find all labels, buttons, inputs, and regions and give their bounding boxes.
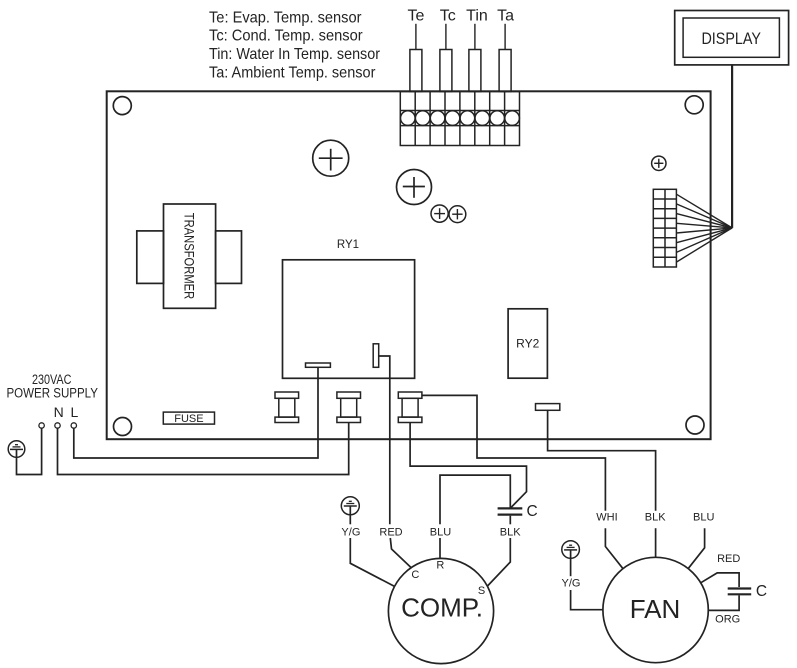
svg-text:RY2: RY2 — [516, 336, 539, 350]
wire N to relay terminal 2 — [58, 423, 349, 475]
svg-text:R: R — [436, 560, 444, 572]
svg-text:RED: RED — [379, 526, 402, 538]
wire RED to comp C — [390, 538, 411, 568]
terminal strip block — [400, 92, 519, 146]
RY2 output terminal bar — [536, 404, 560, 411]
control board outline — [107, 91, 711, 439]
ground symbol power supply — [8, 441, 25, 458]
svg-text:S: S — [478, 585, 485, 597]
svg-text:C: C — [411, 569, 419, 581]
mounting hole bottom-left — [114, 418, 132, 436]
wire BLU to fan — [688, 528, 705, 569]
svg-text:Y/G: Y/G — [341, 526, 360, 538]
relay terminal 2 — [337, 392, 361, 423]
wire relay terminal 3 to comp capacitor — [410, 423, 526, 508]
svg-text:COMP.: COMP. — [401, 593, 483, 623]
svg-text:BLU: BLU — [430, 526, 451, 538]
wire RY2 bar to FAN BLK — [548, 410, 656, 511]
screw hole large middle — [397, 170, 432, 205]
svg-text:POWER SUPPLY: POWER SUPPLY — [6, 385, 98, 400]
sensor Tin lead wire — [474, 24, 476, 50]
relay RY1 coil bar — [306, 363, 331, 367]
sensor Tin body — [469, 50, 481, 92]
terminal L — [71, 423, 76, 428]
svg-text:BLK: BLK — [500, 526, 521, 538]
wire comp ground upper — [349, 506, 351, 524]
wire capacitor to fan ORG — [708, 595, 739, 610]
sensor Ta body — [499, 50, 511, 92]
svg-text:C: C — [756, 583, 767, 600]
ground symbol comp — [341, 497, 359, 515]
earth terminal — [39, 423, 44, 428]
wire ground to earth terminal — [17, 428, 42, 474]
wire BLU comp branch — [440, 475, 510, 524]
svg-text:Y/G: Y/G — [562, 578, 581, 590]
capacitor C comp bottom plate — [498, 513, 523, 515]
screw hole small pair right — [449, 206, 466, 223]
capacitor C fan bottom plate — [728, 593, 752, 595]
sensor Ta lead wire — [504, 24, 506, 50]
ground symbol fan — [562, 541, 580, 559]
DISPLAY box — [675, 11, 789, 65]
relay RY1 contact — [373, 344, 379, 368]
wire WHI to fan — [605, 528, 623, 569]
wire BLK to fan — [655, 528, 657, 557]
svg-text:C: C — [527, 503, 538, 520]
svg-text:Tin: Tin — [466, 7, 488, 24]
svg-text:FAN: FAN — [630, 594, 681, 624]
relay terminal 3 — [398, 392, 422, 423]
capacitor C fan top plate — [728, 587, 752, 589]
svg-text:Tc: Cond. Temp. sensor: Tc: Cond. Temp. sensor — [209, 28, 363, 45]
screw hole large left — [313, 140, 349, 176]
wire L to RY1 coil — [74, 367, 318, 458]
svg-text:ORG: ORG — [715, 614, 740, 626]
svg-text:RED: RED — [717, 553, 740, 565]
wire Y/G to fan — [571, 590, 603, 610]
relay RY2 outline — [508, 309, 547, 378]
wire fan ground upper — [570, 550, 572, 576]
wire Y/G to comp — [350, 538, 394, 586]
fan motor FAN — [603, 557, 708, 662]
terminal strip screws row — [401, 111, 520, 126]
svg-text:Tc: Tc — [440, 7, 456, 24]
svg-text:N: N — [54, 404, 64, 420]
svg-text:BLU: BLU — [693, 512, 714, 524]
svg-text:Te: Te — [407, 7, 424, 24]
mounting hole top-right — [685, 96, 703, 114]
sensor Tc lead wire — [445, 24, 447, 50]
wire relay terminal 3 to FAN WHI — [422, 395, 606, 510]
screw hole near connector — [652, 156, 666, 170]
fuse F1 box — [163, 412, 214, 424]
svg-text:DISPLAY: DISPLAY — [701, 29, 761, 48]
relay terminal 1 — [275, 392, 299, 423]
svg-text:RY1: RY1 — [337, 239, 359, 251]
wire capacitor to BLK label — [509, 516, 511, 525]
sensor Te lead wire — [415, 24, 417, 50]
wire display to connector — [731, 65, 733, 228]
screw hole small pair left — [431, 205, 448, 222]
compressor motor COMP — [388, 558, 493, 663]
svg-text:WHI: WHI — [596, 512, 617, 524]
sensor Te body — [410, 50, 422, 92]
relay RY1 outline — [283, 260, 415, 379]
svg-text:BLK: BLK — [645, 512, 666, 524]
svg-text:Ta: Ambient Temp. sensor: Ta: Ambient Temp. sensor — [209, 64, 376, 81]
wire fan to capacitor RED — [701, 573, 739, 587]
mounting hole top-left — [113, 97, 131, 115]
DISPLAY inner box — [683, 18, 779, 57]
sensor Tc body — [440, 50, 452, 92]
svg-text:L: L — [71, 404, 79, 420]
terminal N — [55, 423, 60, 428]
capacitor C comp top plate — [498, 507, 523, 509]
mounting hole bottom-right — [686, 416, 704, 434]
display connector block — [653, 189, 676, 267]
wire RY1 contact to COMP RED — [379, 356, 390, 524]
wire BLK to comp S — [488, 538, 511, 586]
legend text block — [209, 9, 381, 81]
connector fan-out wires — [676, 194, 732, 262]
wire BLU to comp R — [439, 538, 441, 559]
svg-text:FUSE: FUSE — [174, 413, 203, 425]
transformer T1 — [137, 204, 242, 308]
svg-text:Te: Evap. Temp. sensor: Te: Evap. Temp. sensor — [209, 9, 362, 26]
svg-text:Ta: Ta — [497, 7, 514, 24]
svg-text:Tin: Water In Temp. sensor: Tin: Water In Temp. sensor — [209, 46, 381, 63]
svg-text:TRANSFORMER: TRANSFORMER — [182, 213, 198, 300]
